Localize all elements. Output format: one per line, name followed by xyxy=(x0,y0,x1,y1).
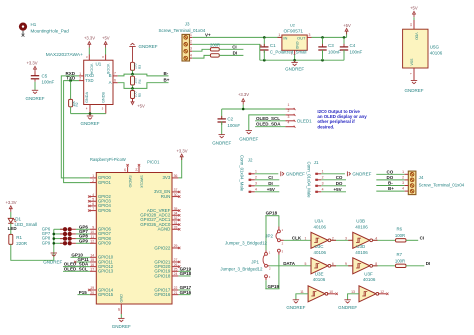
svg-text:GPIO22: GPIO22 xyxy=(154,245,170,250)
wire B to B- xyxy=(118,74,169,76)
svg-text:40106: 40106 xyxy=(314,250,327,255)
svg-text:U3B: U3B xyxy=(356,219,365,224)
svg-text:DO: DO xyxy=(387,175,394,180)
svg-text:34: 34 xyxy=(174,211,178,215)
svg-text:1: 1 xyxy=(190,33,192,37)
pin 2 TXD xyxy=(79,80,84,82)
svg-text:6: 6 xyxy=(332,262,334,266)
svg-text:2: 2 xyxy=(322,176,324,180)
ground GNDREF (OLED pin2) xyxy=(246,130,252,132)
svg-text:R6: R6 xyxy=(397,227,403,232)
svg-text:P15: P15 xyxy=(79,290,88,295)
svg-text:12: 12 xyxy=(90,239,94,243)
no-connect xyxy=(178,209,180,211)
pin 15 GPIO11 xyxy=(90,261,97,263)
connector OLED1 pin 3 xyxy=(285,120,294,122)
svg-text:33: 33 xyxy=(174,225,178,229)
svg-text:100nF: 100nF xyxy=(350,49,363,54)
svg-text:1: 1 xyxy=(278,33,280,37)
no-connect xyxy=(88,200,90,202)
svg-text:Conn_01x04_Male: Conn_01x04_Male xyxy=(306,162,311,199)
svg-text:SWDIO: SWDIO xyxy=(128,175,132,187)
svg-text:40106: 40106 xyxy=(430,51,443,56)
ground GNDREF (U3E) xyxy=(293,299,299,301)
IC U5G 40106 power pins xyxy=(413,20,415,29)
svg-text:100nF: 100nF xyxy=(227,123,240,128)
svg-text:36: 36 xyxy=(174,174,178,178)
svg-text:3: 3 xyxy=(322,182,324,186)
pin 9 GPIO6 xyxy=(90,228,97,230)
wire TXD to GPIO1 xyxy=(64,81,90,183)
svg-text:2: 2 xyxy=(79,77,81,81)
svg-text:40106: 40106 xyxy=(313,277,326,282)
svg-text:5: 5 xyxy=(304,262,306,266)
wire to CI xyxy=(219,48,243,50)
wire / net label OLED_SDA xyxy=(63,266,90,268)
ground GNDREF (C5) xyxy=(32,89,38,91)
op-amp U1 MAX22027AWA+ body xyxy=(88,55,90,61)
svg-text:GNDREF: GNDREF xyxy=(285,66,304,71)
capacitor C2 xyxy=(221,109,223,119)
svg-text:8: 8 xyxy=(375,262,377,266)
pin 2 GND xyxy=(294,50,296,55)
svg-text:3: 3 xyxy=(255,182,257,186)
wire / net label GP19 xyxy=(178,270,190,272)
svg-text:GNDREF: GNDREF xyxy=(212,140,231,145)
wire J4 DO xyxy=(376,179,404,181)
svg-text:GNDB: GNDB xyxy=(101,91,105,102)
ground GNDREF (C2) xyxy=(219,134,225,136)
svg-text:U5G: U5G xyxy=(430,45,440,50)
pin 19 GPIO14 xyxy=(90,289,97,291)
svg-text:CO: CO xyxy=(387,169,394,174)
no-connect xyxy=(178,247,180,249)
wire / net label OLED_SCL xyxy=(63,270,90,272)
svg-text:GNDREF: GNDREF xyxy=(405,88,424,93)
mounting hole H1 xyxy=(19,23,27,31)
ground GNDREF (J1) xyxy=(346,171,348,176)
no-connect xyxy=(178,265,180,267)
wire / net label GP11 xyxy=(77,261,90,263)
svg-text:DI: DI xyxy=(268,181,273,186)
svg-text:+5V: +5V xyxy=(137,104,145,109)
svg-text:7: 7 xyxy=(92,207,94,211)
svg-text:R4: R4 xyxy=(138,79,142,83)
svg-text:DI: DI xyxy=(233,50,238,55)
svg-text:9: 9 xyxy=(92,225,94,229)
pin 7 GPIO5 xyxy=(90,210,97,212)
wire J2 pin3 DI xyxy=(255,185,279,187)
svg-text:26: 26 xyxy=(174,263,178,267)
svg-text:220R: 220R xyxy=(16,241,28,246)
wire U3F input to ground xyxy=(348,294,359,300)
svg-text:OLED_SCL: OLED_SCL xyxy=(64,266,88,271)
svg-text:JP2: JP2 xyxy=(265,233,273,238)
ground GNDREF (U2) xyxy=(294,60,296,62)
wire / net label GP18 xyxy=(178,275,190,277)
svg-text:1: 1 xyxy=(79,72,81,76)
wire J3 pin4 xyxy=(192,55,210,58)
wire / net label GP17 xyxy=(178,289,190,291)
no-connect U3F out xyxy=(378,293,386,295)
pin 3 OUT xyxy=(307,36,311,38)
svg-text:H1: H1 xyxy=(31,22,37,27)
pin 21 GPIO16 xyxy=(172,294,178,296)
svg-text:Jumper_3_Bridged12: Jumper_3_Bridged12 xyxy=(220,267,263,272)
svg-text:OLED_SDA: OLED_SDA xyxy=(256,122,281,127)
pin 5 GPIO3 xyxy=(90,200,97,202)
svg-text:4: 4 xyxy=(375,236,377,240)
wire U3D out to R7 xyxy=(373,265,396,267)
no-connect xyxy=(88,209,90,211)
svg-text:16: 16 xyxy=(90,263,94,267)
svg-text:25: 25 xyxy=(174,268,178,272)
svg-text:U3E: U3E xyxy=(315,272,324,277)
svg-text:1: 1 xyxy=(304,236,306,240)
jumper GP9 xyxy=(54,242,63,244)
svg-text:2: 2 xyxy=(92,179,94,183)
power +5V (R5 bottom) xyxy=(131,102,134,105)
pin 6 A xyxy=(113,82,118,84)
wire J3 pin1 V+ to U2 IN xyxy=(192,36,282,38)
ground GNDREF (jumpers) xyxy=(51,252,57,254)
svg-text:GNDREF: GNDREF xyxy=(239,136,258,141)
svg-text:3: 3 xyxy=(309,33,311,37)
svg-text:MountingHole_Pad: MountingHole_Pad xyxy=(31,28,70,33)
pin 2 GPIO1 xyxy=(90,182,97,184)
svg-text:B+: B+ xyxy=(388,186,394,191)
wire U3E input to ground xyxy=(296,294,308,300)
wire 3V3 to +3.3V xyxy=(178,157,181,178)
node R4-R5 xyxy=(131,87,134,90)
svg-text:MAX22027AWA+: MAX22027AWA+ xyxy=(46,52,83,58)
svg-text:C_Polarized_Small: C_Polarized_Small xyxy=(270,49,307,54)
svg-text:100nF: 100nF xyxy=(42,80,55,85)
wire J2 pin1 to GNDREF xyxy=(255,173,278,175)
svg-text:32: 32 xyxy=(174,216,178,220)
pin 22 GPIO17 xyxy=(172,289,178,291)
resistor R4 xyxy=(132,74,134,76)
svg-text:B-: B- xyxy=(388,181,393,186)
svg-text:+3.3V: +3.3V xyxy=(5,200,16,205)
svg-text:GND: GND xyxy=(295,42,299,50)
pin 20 GPIO15 xyxy=(90,294,97,296)
pin 10 GPIO7 xyxy=(90,233,97,235)
svg-text:GP9: GP9 xyxy=(79,238,89,243)
svg-text:3V3: 3V3 xyxy=(162,175,170,180)
svg-text:1: 1 xyxy=(402,170,404,174)
capacitor C5 xyxy=(34,73,36,76)
wire CLK xyxy=(284,239,311,241)
svg-text:DI: DI xyxy=(426,261,431,266)
svg-text:3: 3 xyxy=(288,115,290,119)
ground GNDREF (U3F) xyxy=(344,299,350,301)
svg-text:RUN: RUN xyxy=(161,194,171,199)
pin 34 GPIO28_ADC2 xyxy=(172,214,178,216)
svg-text:U3F: U3F xyxy=(364,272,373,277)
svg-text:37: 37 xyxy=(174,188,178,192)
connector OLED1 pin 1 xyxy=(285,108,294,110)
svg-text:+3.3V: +3.3V xyxy=(238,92,249,97)
resistor 200R (DI) xyxy=(210,54,219,57)
ground GNDREF (U5G) xyxy=(411,80,417,82)
svg-text:13: 13 xyxy=(351,290,355,294)
svg-text:1: 1 xyxy=(255,170,257,174)
wire +5V rail xyxy=(312,36,347,38)
svg-text:GNDREF: GNDREF xyxy=(338,305,357,310)
resistor R7 xyxy=(396,264,407,267)
svg-text:+5V: +5V xyxy=(343,23,351,28)
svg-text:35: 35 xyxy=(174,207,178,211)
svg-text:Screw_Terminal_01x04: Screw_Terminal_01x04 xyxy=(159,28,206,33)
svg-text:GPIO18: GPIO18 xyxy=(154,273,170,278)
pin 38 GND (pico bottom) xyxy=(120,304,122,314)
no-connect xyxy=(178,214,180,216)
svg-text:+3.3V: +3.3V xyxy=(176,149,187,154)
pin 27 GPIO21 xyxy=(172,261,178,263)
wire J1 pin4 +5V xyxy=(321,191,346,193)
svg-text:30: 30 xyxy=(174,193,178,197)
svg-text:Screw_Terminal_01x04: Screw_Terminal_01x04 xyxy=(419,183,465,188)
svg-text:J4: J4 xyxy=(419,175,424,180)
svg-text:10: 10 xyxy=(90,230,94,234)
wire J3 pin2 to ground rail xyxy=(192,44,260,60)
svg-text:B+: B+ xyxy=(164,78,170,83)
svg-text:GP16: GP16 xyxy=(180,290,192,295)
svg-text:CLK: CLK xyxy=(292,235,302,240)
wire U3C out to U3D in xyxy=(331,265,353,267)
svg-text:CO: CO xyxy=(336,175,343,180)
svg-text:R7: R7 xyxy=(397,252,403,257)
svg-text:LED: LED xyxy=(8,226,18,231)
pin 16 GPIO12 xyxy=(90,266,97,268)
svg-text:24: 24 xyxy=(174,272,178,276)
wire JP1 pin3 to GP19 xyxy=(265,280,267,289)
no-connect xyxy=(178,219,180,221)
wire J1 pin1 to GNDREF xyxy=(321,173,345,175)
pin 25 GPIO19 xyxy=(172,270,178,272)
ground GNDREF (J2) xyxy=(280,171,282,176)
wire R7 to DI xyxy=(406,265,424,267)
svg-text:200R: 200R xyxy=(210,42,220,47)
wire J2 pin4 +5V xyxy=(255,191,279,193)
svg-text:1: 1 xyxy=(288,103,290,107)
svg-text:GPIO15: GPIO15 xyxy=(98,292,114,297)
pin 31 GPIO26_ADC0 xyxy=(172,224,178,226)
svg-text:2: 2 xyxy=(288,109,290,113)
wire xyxy=(34,72,36,76)
pin 33 AGND xyxy=(172,228,178,230)
svg-text:U3A: U3A xyxy=(315,219,324,224)
wire J3 pin3 xyxy=(192,49,210,51)
svg-text:2: 2 xyxy=(402,176,404,180)
svg-text:VSS: VSS xyxy=(410,58,414,66)
resistor R2 xyxy=(69,79,72,82)
capacitor C1 xyxy=(263,36,266,39)
resistor R6 xyxy=(396,239,407,242)
wire A to B+ xyxy=(118,83,169,89)
pin 4 GNDA xyxy=(89,105,91,114)
svg-text:TXD: TXD xyxy=(85,78,93,83)
svg-text:GNDREF: GNDREF xyxy=(286,305,305,310)
jumper GP7 xyxy=(54,233,63,235)
pin 37 3V3_EN xyxy=(172,191,178,193)
svg-text:4: 4 xyxy=(255,188,257,192)
wire J4 B+ xyxy=(376,190,404,192)
wire RXD to GPIO0 xyxy=(61,76,90,178)
resistor 200R (CI) xyxy=(210,48,219,51)
no-connect xyxy=(178,261,180,263)
LED D1 xyxy=(8,218,13,223)
pin 4 GPIO2 xyxy=(90,196,97,198)
svg-text:40106: 40106 xyxy=(363,277,376,282)
pin 29 GPIO22 xyxy=(172,247,178,249)
svg-text:C4: C4 xyxy=(350,43,356,48)
connector OLED1 pin 2 xyxy=(285,114,294,116)
svg-text:GNDREF: GNDREF xyxy=(112,324,131,329)
wire GP18 to JP1 pin1 xyxy=(265,216,267,251)
svg-text:40106: 40106 xyxy=(314,224,327,229)
svg-text:desired.: desired. xyxy=(317,124,334,129)
wire GP18 to JP2 pin1 xyxy=(278,216,280,227)
svg-text:+5V: +5V xyxy=(410,5,418,10)
svg-text:GPIO9: GPIO9 xyxy=(98,241,111,246)
ground GNDREF (U1) xyxy=(89,114,91,116)
svg-text:6: 6 xyxy=(92,202,94,206)
svg-text:LED_Small: LED_Small xyxy=(15,222,38,227)
svg-text:40106: 40106 xyxy=(355,224,368,229)
wire J1 pin2 CO xyxy=(321,179,346,181)
svg-text:1: 1 xyxy=(92,174,94,178)
wire / net label GP10 xyxy=(71,256,90,258)
svg-text:OLED_SCL: OLED_SCL xyxy=(256,116,280,121)
svg-text:11: 11 xyxy=(300,290,304,294)
wire R1 to ground bus xyxy=(11,244,54,260)
svg-text:DO: DO xyxy=(336,181,343,186)
svg-text:4: 4 xyxy=(402,187,404,191)
pin 7 VSS xyxy=(413,68,415,80)
svg-text:100R: 100R xyxy=(395,233,405,238)
svg-text:9: 9 xyxy=(345,262,347,266)
connector J4 Screw_Terminal_01x04 xyxy=(408,171,416,195)
svg-text:OF90571: OF90571 xyxy=(284,29,304,34)
svg-text:7: 7 xyxy=(114,72,116,76)
svg-text:JP1: JP1 xyxy=(251,259,259,264)
svg-text:R5: R5 xyxy=(138,93,142,97)
svg-text:GNDREF: GNDREF xyxy=(26,96,45,101)
svg-text:2: 2 xyxy=(190,40,192,44)
pin 35 ADC_VREF xyxy=(172,210,178,212)
wire / net label P15 xyxy=(78,294,90,296)
svg-text:C2: C2 xyxy=(227,117,233,122)
svg-text:C5: C5 xyxy=(42,73,48,78)
pin 5 GNDB xyxy=(105,105,107,114)
svg-text:3: 3 xyxy=(190,47,192,51)
pin 26 GPIO20 xyxy=(172,266,178,268)
svg-text:GNDREF: GNDREF xyxy=(286,172,305,177)
power +3.3V (pico 3V3) xyxy=(180,154,183,157)
svg-text:GND: GND xyxy=(120,294,124,303)
svg-text:R3: R3 xyxy=(138,65,142,69)
no-connect xyxy=(88,205,90,207)
svg-text:+3.3V: +3.3V xyxy=(26,61,37,66)
svg-text:U3D: U3D xyxy=(356,244,366,249)
wire / net label GP8 xyxy=(76,238,90,240)
svg-text:VDD: VDD xyxy=(415,33,419,41)
connector OLED1 pin 4 xyxy=(285,126,294,128)
svg-text:B-: B- xyxy=(164,71,169,76)
pin 11 GPIO8 xyxy=(90,238,97,240)
svg-text:GNDREF: GNDREF xyxy=(139,44,158,49)
svg-text:C3: C3 xyxy=(328,43,334,48)
svg-text:CI: CI xyxy=(420,235,425,240)
svg-text:+5V: +5V xyxy=(102,36,110,41)
svg-text:14: 14 xyxy=(409,23,413,27)
wire jumper ground bus xyxy=(53,229,55,260)
pin 17 GPIO13 xyxy=(90,270,97,272)
svg-text:A: A xyxy=(109,80,112,85)
wire OLED pin1 rail xyxy=(222,108,286,110)
svg-text:29: 29 xyxy=(174,244,178,248)
svg-text:22: 22 xyxy=(174,286,178,290)
svg-text:14: 14 xyxy=(90,253,94,257)
svg-text:U3C: U3C xyxy=(315,244,325,249)
svg-text:GNDA: GNDA xyxy=(85,91,89,102)
svg-text:4: 4 xyxy=(322,188,324,192)
resistor R5 xyxy=(132,88,134,90)
svg-text:2: 2 xyxy=(332,236,334,240)
no-connect xyxy=(178,223,180,225)
svg-text:17: 17 xyxy=(90,268,94,272)
jumper GP8 xyxy=(54,238,63,240)
svg-text:+5V: +5V xyxy=(334,187,342,192)
svg-text:12: 12 xyxy=(380,290,384,294)
svg-text:GPIO16: GPIO16 xyxy=(154,292,170,297)
wire ground rail xyxy=(260,59,344,61)
pin 12 GPIO9 xyxy=(90,242,97,244)
svg-text:J1: J1 xyxy=(314,160,319,165)
svg-text:100nF: 100nF xyxy=(328,49,341,54)
node R3-R4 xyxy=(131,73,134,76)
svg-text:AGND: AGND xyxy=(158,227,171,232)
svg-text:GNDREF: GNDREF xyxy=(81,121,100,126)
svg-text:D1: D1 xyxy=(15,217,21,222)
pin 6 GPIO4 xyxy=(90,205,97,207)
svg-text:15: 15 xyxy=(90,258,94,262)
wire DATA xyxy=(269,265,311,267)
wire J2 pin2 CI xyxy=(255,179,279,181)
wire J4 B- xyxy=(376,185,404,187)
svg-text:B: B xyxy=(109,73,112,78)
svg-text:IN: IN xyxy=(283,36,287,41)
svg-text:+3.3V: +3.3V xyxy=(84,36,95,41)
pin 1 GPIO0 xyxy=(90,177,97,179)
wire / net label GP16 xyxy=(178,294,190,296)
wire / net label GP9 xyxy=(76,242,90,244)
svg-text:Conn_01x04_Male: Conn_01x04_Male xyxy=(239,155,244,192)
pin 24 GPIO18 xyxy=(172,275,178,277)
svg-text:DATA: DATA xyxy=(283,261,296,266)
svg-text:GP18: GP18 xyxy=(266,211,278,216)
wire to DI xyxy=(219,54,243,56)
svg-text:6: 6 xyxy=(114,78,116,82)
svg-text:GP19: GP19 xyxy=(268,284,280,289)
pin SWDIO (top) xyxy=(127,166,129,172)
ground GNDREF (pico) xyxy=(118,317,124,319)
wire OLED_SCL xyxy=(255,120,285,122)
svg-text:2: 2 xyxy=(255,176,257,180)
svg-text:GP18: GP18 xyxy=(180,271,192,276)
